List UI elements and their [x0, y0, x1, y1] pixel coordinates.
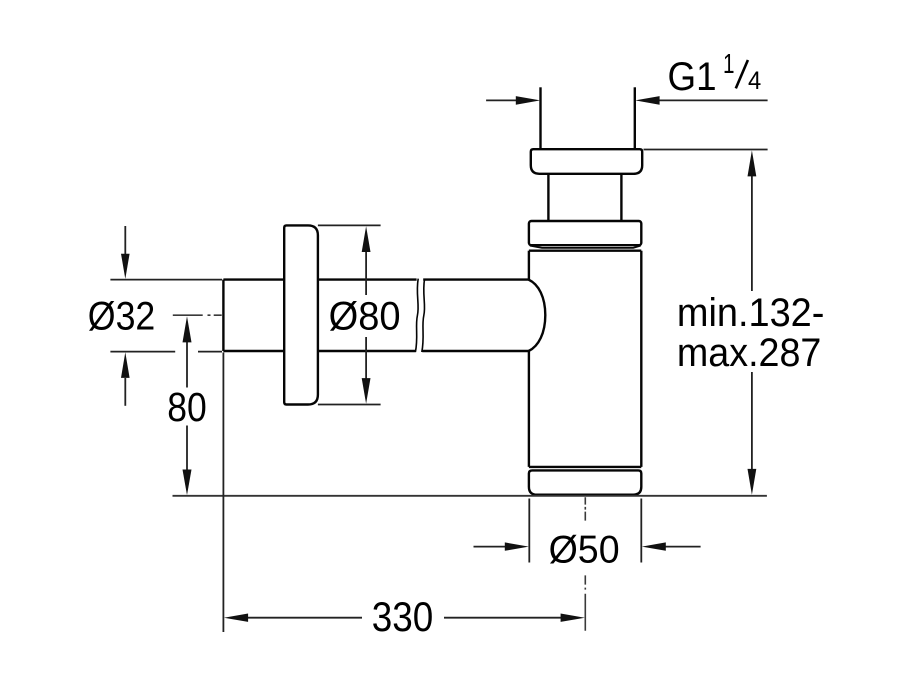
dim O50 line right: [666, 546, 701, 548]
arrowhead G1 left: [516, 96, 540, 105]
svg-text:max.287: max.287: [677, 331, 822, 375]
dim minmax ext line top: [644, 149, 768, 151]
dim O80 line upper: [365, 252, 367, 296]
top flange nut: [531, 149, 642, 174]
dim O32 arrow top tail: [124, 226, 126, 254]
svg-text:80: 80: [167, 384, 207, 430]
arrowhead O50 right: [642, 542, 666, 550]
dim 330 line right: [444, 617, 562, 619]
dim minmax line upper: [751, 176, 753, 291]
horizontal pipe top edge: [223, 278, 528, 280]
arrowhead 80 down: [183, 470, 192, 496]
arrowhead O80 up: [362, 226, 371, 252]
neck wall right: [620, 174, 622, 221]
pipe centerline: [173, 314, 222, 316]
dim 80 line upper: [186, 342, 188, 388]
bottom cap: [529, 470, 641, 494]
pipe break mark right: [422, 279, 425, 352]
dim O50 ext line left: [528, 499, 530, 563]
pipe break mark left: [415, 279, 418, 352]
horizontal pipe bottom edge: [223, 350, 528, 352]
body right edge: [640, 251, 642, 467]
dim 330 line left: [248, 617, 363, 619]
dim G1 1/4 line left: [486, 99, 517, 101]
dim G1 1/4 line right: [658, 99, 768, 101]
installation surface line: [173, 495, 767, 497]
dim O32 ext line top: [110, 279, 222, 281]
seam line: [530, 246, 641, 248]
dim O80 ext line top: [318, 224, 381, 226]
dim O50 line left: [474, 546, 506, 548]
dim minmax line lower: [751, 372, 753, 469]
arrowhead 330 left: [224, 614, 248, 622]
inlet pipe wall left: [539, 87, 541, 149]
svg-text:Ø32: Ø32: [88, 295, 156, 339]
arrowhead O50 left: [505, 542, 529, 550]
wall flange disc: [284, 225, 318, 404]
neck wall left: [547, 174, 549, 221]
body left edge upper: [528, 251, 530, 280]
inlet pipe wall right: [634, 87, 636, 149]
svg-text:min.132-: min.132-: [677, 291, 825, 335]
body top edge: [529, 249, 641, 251]
body left edge lower: [528, 351, 530, 467]
collar nut: [529, 221, 641, 245]
arrowhead minmax down: [748, 469, 757, 495]
svg-text:1: 1: [723, 48, 735, 79]
dim 330 ext line: [222, 353, 224, 633]
svg-text:Ø80: Ø80: [329, 295, 401, 339]
svg-text:Ø50: Ø50: [549, 529, 620, 572]
arrowhead O32 top: [121, 254, 130, 279]
pipe left end cap: [222, 280, 224, 351]
label G1 fraction slash: [736, 60, 748, 88]
arrowhead O32 bottom: [121, 352, 130, 378]
dim 80 line lower: [186, 426, 188, 471]
body bottom edge: [529, 466, 641, 468]
svg-text:G1: G1: [668, 55, 717, 99]
dim O50 ext line right: [640, 499, 642, 563]
dim O80 ext line bottom: [318, 404, 381, 406]
arrowhead minmax up: [748, 150, 757, 176]
inlet-body intersection arc: [529, 280, 546, 351]
dim O32 ext line bottom: [110, 351, 222, 353]
arrowhead G1 right: [635, 96, 659, 105]
arrowhead 80 up: [183, 316, 192, 342]
svg-text:4: 4: [748, 67, 761, 95]
dim O80 line lower: [365, 337, 367, 379]
arrowhead O80 down: [362, 378, 371, 404]
arrowhead 330 right: [561, 614, 585, 622]
body centerline: [584, 497, 586, 630]
dim O32 arrow bottom tail: [124, 378, 126, 406]
svg-text:330: 330: [372, 593, 434, 640]
